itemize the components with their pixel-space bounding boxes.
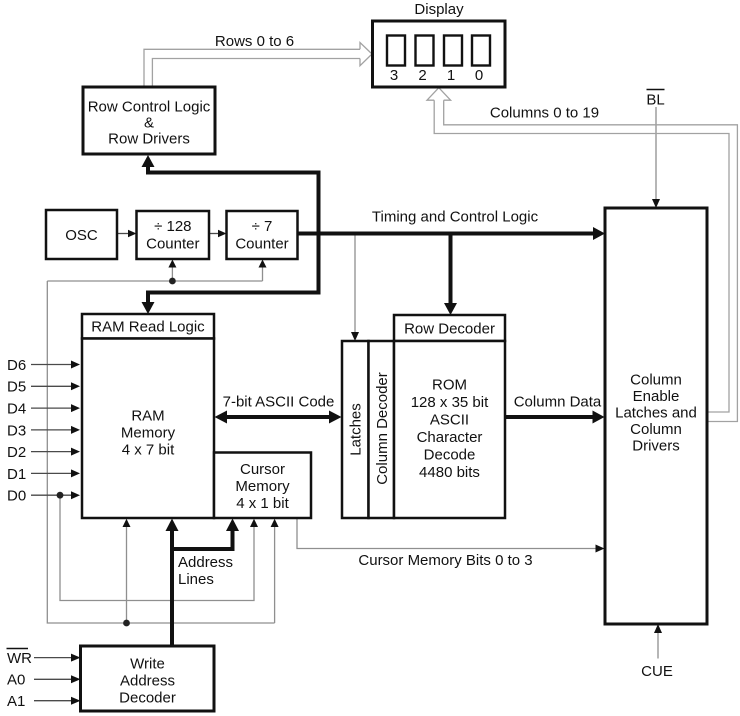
svg-text:7-bit ASCII Code: 7-bit ASCII Code (223, 394, 335, 411)
svg-text:Timing and Control Logic: Timing and Control Logic (372, 209, 539, 226)
svg-text:D0: D0 (7, 488, 26, 505)
svg-text:Column: Column (630, 421, 682, 438)
svg-text:Display: Display (414, 1, 464, 18)
svg-text:Row Decoder: Row Decoder (404, 321, 495, 338)
svg-text:A1: A1 (7, 693, 25, 710)
svg-text:4480 bits: 4480 bits (419, 464, 480, 481)
svg-text:÷ 128: ÷ 128 (154, 218, 191, 235)
svg-text:Decode: Decode (424, 447, 476, 464)
svg-text:Row Drivers: Row Drivers (108, 131, 190, 148)
svg-text:Cursor Memory Bits 0 to 3: Cursor Memory Bits 0 to 3 (358, 552, 532, 569)
svg-text:3: 3 (390, 67, 398, 84)
svg-text:Character: Character (417, 429, 483, 446)
svg-text:Decoder: Decoder (119, 690, 176, 707)
svg-text:1: 1 (447, 67, 455, 84)
svg-text:BL: BL (646, 92, 664, 109)
svg-text:WR: WR (7, 650, 32, 667)
svg-text:Column Data: Column Data (514, 394, 602, 411)
svg-text:D1: D1 (7, 466, 26, 483)
svg-text:OSC: OSC (65, 227, 98, 244)
svg-text:Columns 0 to 19: Columns 0 to 19 (490, 105, 599, 122)
svg-text:&: & (144, 115, 154, 132)
svg-text:Write: Write (130, 656, 165, 673)
svg-text:RAM: RAM (131, 408, 164, 425)
svg-text:Address: Address (178, 554, 233, 571)
svg-text:128 x 35 bit: 128 x 35 bit (411, 394, 489, 411)
svg-text:Column: Column (630, 372, 682, 389)
svg-text:CUE: CUE (641, 663, 673, 680)
svg-text:Counter: Counter (146, 236, 199, 253)
svg-text:RAM Read Logic: RAM Read Logic (91, 319, 205, 336)
svg-text:Drivers: Drivers (632, 438, 680, 455)
svg-text:Enable: Enable (633, 388, 680, 405)
svg-text:Counter: Counter (235, 236, 288, 253)
svg-text:Lines: Lines (178, 571, 214, 588)
svg-text:A0: A0 (7, 672, 25, 689)
svg-text:2: 2 (418, 67, 426, 84)
svg-text:0: 0 (475, 67, 483, 84)
svg-text:D6: D6 (7, 357, 26, 374)
svg-text:4 x 7 bit: 4 x 7 bit (122, 442, 175, 459)
svg-text:Rows 0 to 6: Rows 0 to 6 (215, 33, 294, 50)
svg-text:ROM: ROM (432, 377, 467, 394)
svg-text:Cursor: Cursor (240, 461, 285, 478)
svg-text:D5: D5 (7, 379, 26, 396)
svg-text:Column Decoder: Column Decoder (374, 372, 391, 485)
svg-text:Memory: Memory (235, 478, 290, 495)
svg-text:ASCII: ASCII (430, 412, 469, 429)
svg-text:Latches: Latches (348, 403, 365, 456)
svg-text:Row Control Logic: Row Control Logic (88, 99, 211, 116)
svg-text:Latches and: Latches and (615, 405, 697, 422)
svg-text:D4: D4 (7, 401, 26, 418)
svg-text:D3: D3 (7, 422, 26, 439)
svg-text:Memory: Memory (121, 425, 176, 442)
svg-text:4 x 1 bit: 4 x 1 bit (236, 495, 289, 512)
svg-text:D2: D2 (7, 444, 26, 461)
svg-text:Address: Address (120, 673, 175, 690)
svg-text:÷ 7: ÷ 7 (252, 218, 273, 235)
